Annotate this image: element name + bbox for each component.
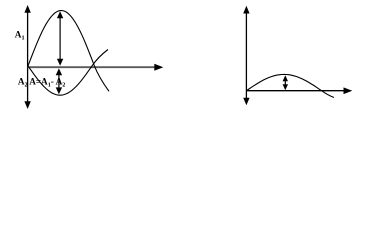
right plot horizontal axis (246, 87, 352, 94)
arrowhead up: at axis below (56, 68, 62, 75)
curve: small hump (right plot) (246, 74, 334, 97)
arrowhead up: left vertical axis top (24, 5, 30, 13)
right plot vertical axis (double-headed) (243, 6, 249, 106)
left plot horizontal axis (28, 64, 164, 71)
svg-text:A=A1- A2: A=A1- A2 (29, 77, 65, 89)
wire: right double-arrow stem (284, 79, 286, 87)
wire: left vertical axis line (27, 12, 29, 103)
curve A2: small inverted half-sine below axis then tail above (28, 50, 108, 96)
arrowhead down: right vertical axis bottom (243, 98, 249, 106)
arrowhead down: at axis (283, 84, 288, 90)
curve A1: large half-sine above axis then tail below (28, 11, 109, 92)
svg-text:A2: A2 (18, 77, 28, 89)
double arrow: amplitude A1 (axis to peak) (57, 11, 63, 65)
arrowhead right: left horizontal axis (154, 64, 163, 71)
arrowhead down: at axis (57, 59, 63, 66)
wire: upper double-arrow stem (59, 16, 61, 61)
double arrow: right hump amplitude (283, 75, 288, 90)
arrowhead up: at hump peak (283, 75, 288, 81)
double arrow: amplitude A2 (axis to trough) (56, 68, 62, 94)
left plot vertical axis (double-headed) (24, 5, 30, 109)
wire: left horizontal axis line (28, 66, 155, 68)
arrowhead up: right vertical axis top (243, 6, 249, 14)
wire: right horizontal axis line (246, 90, 344, 92)
arrowhead right: right horizontal axis (344, 87, 353, 94)
wire: right vertical axis line (245, 12, 247, 98)
arrowhead up: at curve peak (57, 11, 63, 18)
svg-text:A1: A1 (15, 29, 25, 41)
wire: lower double-arrow stem (58, 72, 60, 91)
arrowhead down: left vertical axis bottom (24, 101, 30, 109)
arrowhead down: at trough (56, 87, 62, 94)
